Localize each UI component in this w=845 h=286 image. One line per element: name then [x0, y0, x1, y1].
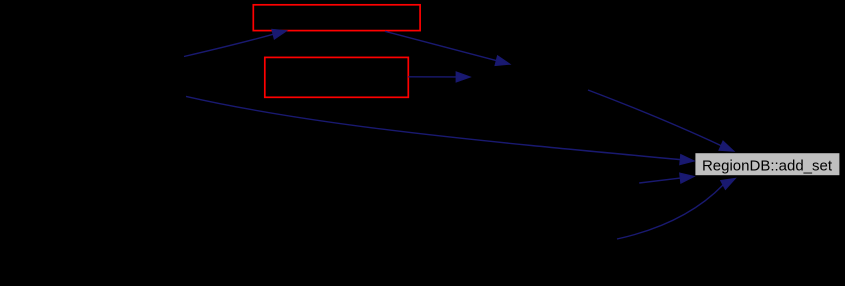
node L (invisible caller node, black on black, 2-line) [56, 56, 185, 96]
node Y (invisible node feeding edge3) [522, 163, 639, 203]
edge top red box -> node X [385, 31, 510, 65]
edge mid red box -> node X [408, 72, 470, 82]
edge L -> RegionDB::add_set (long curve) [186, 96, 694, 164]
edge node X -> RegionDB::add_set [588, 90, 734, 151]
node Z (invisible node feeding edge4) [500, 219, 617, 259]
node RegionDB::add_set (current function, grey) [695, 152, 841, 176]
edge node Y -> RegionDB::add_set [639, 173, 694, 183]
node X (invisible intermediate node, black on black) [471, 64, 589, 104]
edge node Z -> RegionDB::add_set [617, 178, 736, 239]
svg-text:RegionDB::add_set: RegionDB::add_set [702, 157, 833, 174]
node top red (truncated caller node, label hidden) [253, 5, 420, 31]
node mid red (truncated caller node, 2-line, label hidden) [265, 57, 409, 97]
edge L -> top red box [184, 29, 287, 56]
